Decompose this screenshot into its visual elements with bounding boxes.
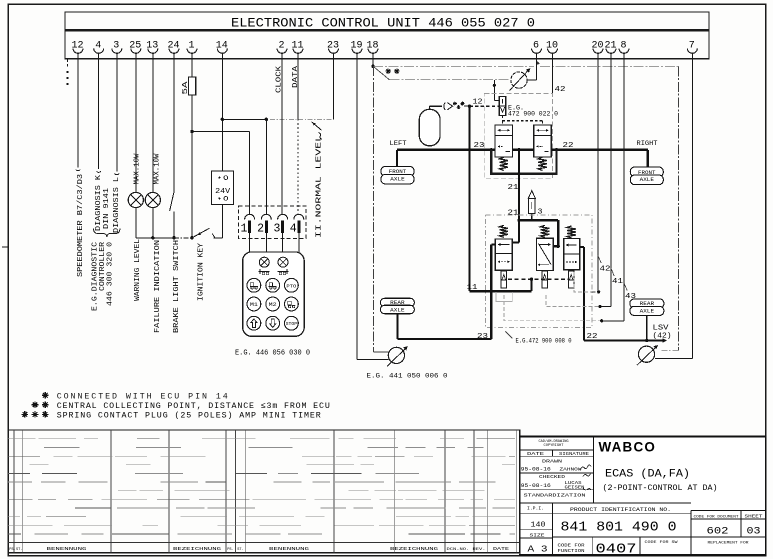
svg-text:SPEEDOMETER B7/C3/D3: SPEEDOMETER B7/C3/D3 [77, 174, 85, 277]
remote button lower (down arrow) [266, 316, 280, 330]
wire pin 4 diagnosis K [98, 54, 100, 169]
svg-text:DIAGNOSIS K: DIAGNOSIS K [95, 174, 103, 231]
wire lamp H1 to common rail [135, 208, 137, 238]
svg-text:5A: 5A [182, 80, 190, 94]
collecting line drop left side to sensor [373, 66, 375, 352]
ECU pin 19 [350, 40, 362, 53]
svg-text:I.P.I.: I.P.I. [527, 506, 544, 512]
svg-text:1: 1 [188, 40, 194, 51]
rear valve B (proportional) [536, 238, 553, 270]
remote plug pin 2 [257, 214, 271, 235]
svg-text:REAR: REAR [640, 301, 654, 307]
rear valve A spring [500, 225, 509, 237]
svg-text:SIGNATURE: SIGNATURE [559, 451, 589, 457]
collecting line horizontal to right [373, 65, 534, 67]
svg-text:LSV: LSV [653, 325, 670, 333]
svg-text:CODE FOR DOCUMENT: CODE FOR DOCUMENT [694, 515, 740, 519]
junction bypass / down pipe [517, 172, 520, 175]
note * connected with ECU pin 14 [42, 394, 49, 396]
pressure gauge (test connection) [511, 72, 527, 88]
svg-text:DIN 9141: DIN 9141 [103, 188, 111, 229]
wire battery to ignition switch [221, 205, 223, 238]
junction pin1 / ignition contact [190, 236, 193, 239]
wire pin 7 to LSV sensor [691, 54, 693, 359]
svg-text:GEISEN: GEISEN [565, 486, 586, 490]
svg-text:STOP: STOP [286, 321, 298, 327]
parts list table [8, 430, 520, 553]
junction rail / remote pin2 [265, 118, 268, 121]
wire pin 18 to central collecting point [372, 54, 374, 66]
svg-text:LEFT: LEFT [390, 140, 407, 147]
wire pin 19 to front sensor [356, 54, 358, 359]
REAR AXLE right bubble [630, 299, 664, 308]
svg-text:CODE FOR SW: CODE FOR SW [645, 541, 679, 545]
svg-text:REAR: REAR [390, 300, 404, 306]
ECU box (ELECTRONIC CONTROL UNIT 446 055 027 0) [65, 12, 709, 59]
svg-text:4: 4 [95, 40, 101, 51]
remote plug pin 1 [241, 214, 255, 235]
wire pin 25 to warning lamp [135, 54, 137, 193]
collecting line diagonal with ** stars [373, 66, 390, 80]
svg-text:BRAKE LIGHT SWITCH: BRAKE LIGHT SWITCH [173, 240, 181, 333]
ECU pin 21 [604, 40, 616, 53]
junction delivery left [490, 148, 493, 151]
svg-text:11: 11 [467, 284, 479, 292]
wire pin 21 to solenoid 41 [610, 54, 612, 307]
fuse 5A [188, 77, 195, 95]
rear valve C [564, 239, 580, 270]
svg-text:140: 140 [531, 522, 547, 530]
REAR AXLE left bubble [380, 298, 414, 307]
ECU pin 4 [94, 40, 104, 53]
remote button PTO [285, 278, 299, 292]
rear valve B pilot plunger [542, 271, 548, 288]
solenoid valve E.G. 472 900 022 0 [499, 97, 506, 116]
rear delivery pipe 23 (left) [491, 244, 495, 246]
pilot feed dashed to solenoid valve [469, 105, 499, 107]
svg-text:8: 8 [620, 40, 626, 51]
supply branch into pilot line [530, 279, 532, 291]
svg-text:(42): (42) [653, 333, 672, 341]
wire lamp H2 to common rail [152, 208, 154, 238]
svg-text:22: 22 [563, 142, 574, 150]
wire remote plug 2 into unit [265, 233, 267, 252]
junction gauge branch [493, 84, 496, 87]
leader label 41 (solenoid) [611, 268, 614, 276]
remote button raise (up arrow) [247, 316, 261, 330]
svg-text:AXLE: AXLE [390, 177, 404, 183]
pipe REAR AXLE right drop [646, 316, 648, 341]
svg-text:3: 3 [274, 223, 281, 236]
lamp H2 failure indication [145, 192, 160, 207]
svg-text:602: 602 [707, 527, 729, 538]
svg-text:PS.: PS. [9, 548, 15, 552]
air tank [419, 109, 440, 146]
svg-text:2: 2 [257, 223, 264, 236]
ECU pin 6 [532, 40, 542, 53]
svg-text:COPYRIGHT: COPYRIGHT [544, 444, 564, 448]
remote control unit 446 056 030 0 (rounded box) [243, 252, 305, 336]
wire pin 1 with fuse [191, 54, 193, 238]
svg-text:841 801 490 0: 841 801 490 0 [561, 520, 677, 536]
svg-text:12: 12 [473, 99, 483, 107]
svg-text:RIGHT: RIGHT [637, 140, 658, 147]
svg-text:BENENNUNG: BENENNUNG [269, 546, 309, 552]
svg-text:6: 6 [533, 40, 539, 51]
svg-text:(2-POINT-CONTROL AT DA): (2-POINT-CONTROL AT DA) [603, 484, 718, 493]
svg-text:ELECTRONIC CONTROL UNIT 446 05: ELECTRONIC CONTROL UNIT 446 055 027 0 [231, 16, 535, 31]
grey pilot return line (solenoid 43) [504, 295, 601, 321]
svg-text:DCN-NO. REV.: DCN-NO. REV. [447, 548, 486, 552]
leader label 43 (solenoid) [624, 283, 627, 291]
pressure sensor front (E.G. 441 050 006 0) [388, 347, 404, 363]
svg-text:03: 03 [747, 527, 761, 538]
level select rail pin14 to remote pin 2 [222, 118, 266, 120]
ECU pin 14 [216, 40, 228, 53]
front right valve spring [538, 157, 547, 170]
junction brake switch / rail [172, 236, 175, 239]
rear valve A pilot plunger [501, 271, 507, 288]
svg-text:MAX.10W: MAX.10W [154, 153, 162, 185]
ECU pin 24 [167, 40, 179, 53]
pilot control dashed line across plungers [508, 278, 568, 280]
svg-text:23: 23 [474, 142, 485, 150]
rear valve B spring [541, 225, 550, 237]
ECU pin 18 [366, 40, 378, 53]
signature squiggle (Zahnow) [580, 465, 591, 470]
frame centering tick [2, 246, 8, 248]
solenoid pilot dashed lines to front valves [502, 116, 504, 121]
rear valve C spring [567, 226, 576, 238]
svg-text:0407: 0407 [596, 542, 637, 557]
svg-text:M1: M1 [250, 302, 258, 308]
wire rail drop to remote pin 2 [265, 119, 267, 215]
pipe drop to FRONT AXLE right [647, 150, 649, 168]
svg-text:PRODUCT IDENTIFICATION NO.: PRODUCT IDENTIFICATION NO. [570, 507, 671, 513]
brace grouping diagnostic controller [94, 229, 120, 238]
remote control connector (dashed box, plug pins 1-4) [239, 206, 306, 239]
svg-text:AXLE: AXLE [640, 177, 654, 183]
dashed boundary box 42 (front valve unit) [484, 94, 552, 179]
svg-text:21: 21 [508, 184, 520, 192]
lamp H1 warning level [128, 192, 143, 207]
FRONT AXLE right bubble [630, 167, 663, 177]
svg-text:22: 22 [587, 333, 598, 341]
svg-text:ST.: ST. [16, 548, 22, 552]
svg-text:DATE: DATE [527, 451, 544, 457]
junction pin14 / level rail [221, 118, 224, 121]
remote button truck-rear [266, 278, 280, 292]
svg-text:7: 7 [689, 40, 695, 51]
svg-text:SPRING CONTACT PLUG (25 POLES): SPRING CONTACT PLUG (25 POLES) AMP MINI … [57, 411, 322, 421]
junction pilot / supply riser [530, 278, 533, 281]
svg-text:E.G. 446 056 030 0: E.G. 446 056 030 0 [235, 350, 310, 358]
grey exhaust detail under valve A [496, 292, 512, 302]
ECU pin 2 [277, 40, 287, 53]
svg-text:95-08-16: 95-08-16 [521, 467, 551, 473]
signature squiggle (checked) [583, 474, 591, 477]
wire remote feed pin1 [192, 131, 250, 133]
svg-text:LUCAS: LUCAS [565, 482, 583, 486]
check valve [444, 102, 445, 110]
svg-text:CHECKED: CHECKED [539, 474, 565, 480]
remote button truck-all [285, 297, 299, 311]
II.NORMAL LEVEL switch S3 [312, 122, 322, 130]
wire pin 10 to valve 42 [552, 54, 554, 94]
svg-text:21: 21 [508, 210, 520, 218]
junction pin1 / remote feed [190, 130, 193, 133]
svg-text:AXLE: AXLE [640, 309, 654, 315]
svg-text:DATE: DATE [493, 546, 509, 552]
remote button M1 [247, 297, 261, 311]
wire remote plug 1 into unit [249, 233, 251, 252]
down pipe to rear unit (21) [518, 150, 520, 220]
wire pin 14 to battery [221, 54, 223, 171]
front right levelling valve [534, 125, 552, 157]
svg-text:DATA: DATA [292, 65, 300, 88]
pipe between front valves [513, 149, 534, 151]
leader label 42 (solenoid) [598, 256, 601, 263]
FRONT AXLE left bubble [381, 166, 414, 176]
svg-text:MAX.10W: MAX.10W [134, 153, 142, 185]
svg-text:CLOCK: CLOCK [276, 65, 284, 93]
ECU pin 12 [71, 40, 83, 53]
svg-text:II.NORMAL LEVEL: II.NORMAL LEVEL [316, 135, 324, 238]
svg-text:BEZEICHNUNG: BEZEICHNUNG [173, 546, 221, 552]
ECU pin 25 [129, 40, 141, 53]
wire pin 20 to solenoid 42 [597, 54, 599, 292]
ECU pin 8 [619, 40, 629, 53]
svg-text:41: 41 [612, 278, 623, 286]
svg-text:CODE FOR: CODE FOR [558, 543, 585, 548]
ECU pin 13 [146, 40, 158, 53]
svg-text:WABCO: WABCO [599, 440, 657, 455]
junction delivery right [555, 148, 558, 151]
svg-text:E.G.472 900 008 0: E.G.472 900 008 0 [516, 338, 572, 345]
title block outer [520, 436, 766, 555]
supply down-pipe to rear valve unit [468, 106, 470, 291]
svg-text:SHEET: SHEET [745, 515, 764, 519]
ECU pin 10 [546, 40, 558, 53]
svg-text:AXLE: AXLE [390, 307, 404, 313]
svg-text:SIZE: SIZE [530, 534, 546, 539]
wire pin 6 to gauge [536, 54, 538, 80]
ECU pin 11 [291, 40, 303, 53]
product identification row [520, 503, 766, 555]
grey pilot return line (solenoid 41) [546, 295, 599, 307]
svg-text:4: 4 [290, 223, 297, 236]
wire pin 12 to speedometer [77, 54, 79, 167]
wire pin 3 diagnosis L [116, 54, 118, 171]
svg-text:23: 23 [477, 333, 488, 341]
svg-text:WARNING LEVEL: WARNING LEVEL [134, 239, 142, 301]
remote button STOP [285, 316, 299, 330]
junction central collecting point [371, 65, 374, 68]
rear delivery pipe 22 (right) [580, 246, 584, 248]
svg-text:DIAGNOSIS L: DIAGNOSIS L [113, 177, 121, 233]
svg-text:FUNCTION: FUNCTION [558, 549, 585, 554]
front left valve spring [500, 157, 509, 170]
wire remote plug 3 into unit [282, 233, 284, 252]
svg-text:STANDARDIZATION: STANDARDIZATION [524, 492, 586, 498]
remote plug pin 3 [274, 214, 288, 235]
svg-text:446 300 320 0: 446 300 320 0 [106, 242, 114, 306]
junction supply node 12 [468, 105, 471, 108]
common rail (lamps / switches) [136, 237, 174, 239]
grey pilot return line (solenoid 42) [574, 272, 592, 292]
svg-text:BENENNUNG: BENENNUNG [47, 546, 87, 552]
rear valve C pilot plunger [568, 271, 574, 288]
svg-text:42: 42 [600, 266, 611, 274]
wire pin 11 (DATA) to remote pin 4 [297, 54, 299, 119]
arrow into gauge wire [536, 61, 540, 65]
svg-text:PTO: PTO [286, 283, 296, 289]
delivery pipe RIGHT front [551, 149, 648, 151]
ECU pin 23 [327, 40, 339, 53]
rear valve A [495, 239, 512, 270]
svg-text:95-08-16: 95-08-16 [521, 483, 551, 489]
svg-text:M2: M2 [269, 302, 277, 308]
leader + label E.G.472 900 008 0 [506, 332, 513, 339]
ECU pin 7 [687, 40, 697, 53]
svg-text:ZAHNOW: ZAHNOW [560, 466, 582, 472]
svg-text:PS.: PS. [227, 548, 233, 552]
delivery pipe LEFT front [397, 149, 495, 151]
remote plug pin 4 [290, 214, 304, 235]
svg-text:BEZEICHNUNG: BEZEICHNUNG [390, 546, 438, 552]
svg-text:ST.: ST. [237, 548, 243, 552]
svg-text:42: 42 [555, 86, 566, 94]
wire remote plug 4 into unit [298, 233, 300, 252]
ignition key switch S2 [192, 228, 210, 238]
dashed boundary box (rear valve unit E.G.472 900 008 0) [486, 215, 592, 328]
further-pins indicator dashes below ECU [67, 60, 69, 67]
front left levelling valve [495, 125, 513, 157]
rear unit supply manifold [517, 219, 520, 222]
junction lamp H2 / rail [151, 236, 154, 239]
remote button truck-front [247, 278, 261, 292]
remote lamp right [278, 257, 288, 267]
remote level icon right [278, 271, 289, 273]
svg-text:24V: 24V [215, 188, 231, 196]
svg-text:43: 43 [625, 293, 636, 301]
brake light switch S1 [170, 191, 175, 212]
ECU pin 20 [591, 40, 603, 53]
ECU pin 3 [112, 40, 122, 53]
wire pin 13 to failure lamp [152, 54, 154, 193]
svg-text:E.G. 441 050 006 0: E.G. 441 050 006 0 [367, 373, 448, 380]
wire pin 23 to normal level switch [333, 54, 335, 119]
supply pipe tank to check valve [430, 105, 443, 107]
remote button M2 [266, 297, 280, 311]
title block left column grid [520, 436, 691, 503]
svg-text:CENTRAL COLLECTING POINT, DIST: CENTRAL COLLECTING POINT, DISTANCE ≤3m F… [57, 402, 331, 411]
ECU pin 1 [187, 40, 197, 53]
wire pin 24 to brake light switch [173, 54, 175, 191]
note *** spring contact plug [22, 413, 29, 415]
wire pin 2 (CLOCK) to remote pin 3 [281, 54, 283, 215]
silencer / exhaust valve 3 [528, 191, 535, 199]
svg-text:3: 3 [113, 40, 119, 51]
svg-text:FRONT: FRONT [389, 169, 407, 175]
svg-text:FAILURE INDICATION: FAILURE INDICATION [154, 240, 162, 333]
collecting line to gauge left [390, 79, 511, 81]
svg-text:472 900 022 0: 472 900 022 0 [508, 111, 558, 118]
svg-text:IGNITION KEY: IGNITION KEY [198, 242, 206, 301]
svg-text:DRAWN: DRAWN [542, 459, 562, 465]
front bypass pipe under springs [491, 150, 556, 174]
remote level icon left [259, 271, 270, 273]
pressure sensor LSV rear [638, 346, 654, 362]
svg-text:REPLACEMENT FOR: REPLACEMENT FOR [708, 542, 750, 546]
svg-text:CONNECTED WITH ECU PIN 14: CONNECTED WITH ECU PIN 14 [57, 392, 230, 401]
remote lamp left [259, 257, 269, 267]
svg-text:ECAS (DA,FA): ECAS (DA,FA) [605, 469, 690, 481]
collecting line drop right side [678, 66, 680, 350]
wire pin 8 to solenoid 43 [623, 54, 625, 321]
svg-text:2: 2 [278, 40, 284, 51]
junction centre delivery [517, 148, 520, 151]
svg-text:A 3: A 3 [528, 544, 548, 555]
pipe drop to FRONT AXLE left [396, 150, 398, 167]
svg-text:1: 1 [241, 223, 248, 236]
battery 24V [212, 171, 234, 205]
svg-text:FRONT: FRONT [638, 170, 656, 176]
note ** central collecting point [32, 404, 39, 406]
pipe REAR AXLE left to delivery [396, 314, 398, 339]
level rail dash-dot to II.NORMAL LEVEL switch [270, 118, 334, 120]
